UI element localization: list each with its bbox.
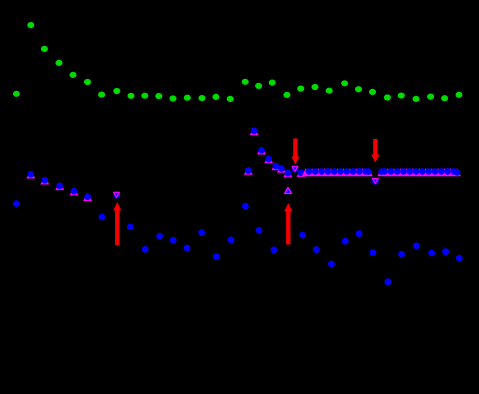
defect marker: down-triangle on circle below row (second down arrow target): [372, 178, 379, 185]
red down arrow (first): [291, 139, 299, 165]
red up arrow (middle): [284, 203, 292, 245]
right descending group: triangle + circle paired markers: [244, 127, 306, 177]
defect marker: down-triangle on circle (in row, first down arrow target): [291, 165, 298, 172]
defect marker: down-triangle on circle (left group, arrow target): [113, 191, 120, 198]
defect marker: up-triangle outline on circle below row (middle up arrow target): [285, 188, 292, 195]
left group: magenta triangle + blue circle paired markers: [26, 171, 92, 202]
red down arrow (second): [371, 139, 379, 163]
green series: decaying energy points: [13, 22, 463, 102]
blue series: scattered points: [13, 200, 463, 285]
red up arrow (left): [113, 202, 121, 245]
dense plateau row of triangle + circle markers: [302, 168, 461, 176]
